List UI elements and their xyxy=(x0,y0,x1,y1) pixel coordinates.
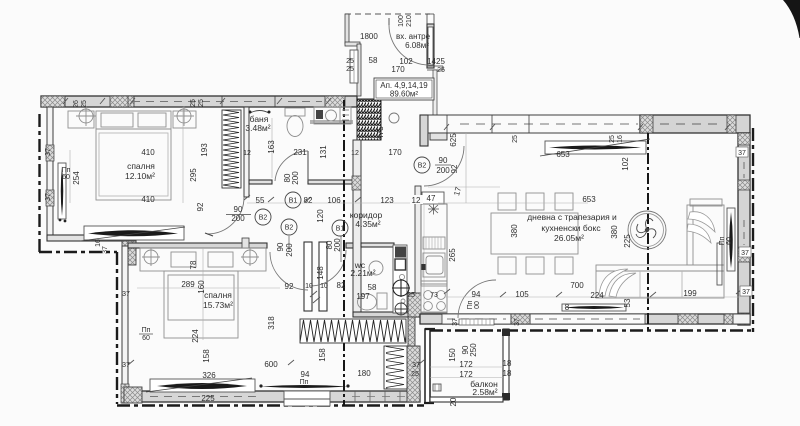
wall hatch block top-left corner xyxy=(41,96,65,107)
boundary bold dash right xyxy=(752,128,754,332)
bathroom sink xyxy=(314,107,351,124)
living bottom hatch blocks xyxy=(511,314,530,324)
svg-text:12.10м²: 12.10м² xyxy=(125,171,155,181)
corridor west wall xyxy=(353,140,361,317)
dimension tick marks xyxy=(63,98,742,365)
dining table xyxy=(491,213,578,254)
svg-text:225: 225 xyxy=(623,234,632,248)
dim line bathroom xyxy=(271,118,273,178)
dim line living horizontal y187 xyxy=(428,186,500,188)
wardrobe row bedroom2 xyxy=(140,248,266,271)
entrance top dashed line xyxy=(345,13,430,15)
bedroom2 top wall xyxy=(128,243,267,248)
kitchen counter xyxy=(421,204,447,313)
balcony bottom wall xyxy=(430,397,503,402)
niche wall post right xyxy=(319,242,327,311)
svg-text:193: 193 xyxy=(200,143,209,157)
svg-text:16: 16 xyxy=(95,239,102,247)
entrance left wall upper xyxy=(345,14,349,44)
sofa horizontal xyxy=(596,265,724,298)
bathroom sink niche wall xyxy=(310,121,353,123)
svg-text:158: 158 xyxy=(202,349,211,363)
wc toilet xyxy=(377,293,387,309)
wardrobe zigzag horizontal block xyxy=(300,319,406,343)
balcony right wall xyxy=(503,329,509,400)
svg-text:225: 225 xyxy=(201,394,215,403)
svg-text:6.08м²: 6.08м² xyxy=(405,41,429,50)
svg-text:90: 90 xyxy=(276,242,285,251)
svg-text:123: 123 xyxy=(380,196,394,205)
light symbol bedroom1 left xyxy=(79,109,93,123)
entrance door arc xyxy=(389,25,429,65)
bathroom towel rail xyxy=(250,111,269,114)
dim line bedroom2 xyxy=(137,248,280,340)
svg-text:Пп: Пп xyxy=(467,300,474,309)
svg-text:37: 37 xyxy=(122,362,130,369)
svg-text:37: 37 xyxy=(45,193,52,201)
kitchen cabinet 47 xyxy=(422,192,444,204)
svg-text:В1: В1 xyxy=(336,226,345,233)
dim line living y294 xyxy=(445,296,740,298)
svg-text:25: 25 xyxy=(81,100,88,108)
bedroom2 bottom window dash xyxy=(150,396,258,398)
ceiling fan xyxy=(628,211,666,249)
bedroom2 left wall hatch low xyxy=(121,384,129,403)
svg-text:37: 37 xyxy=(742,289,750,296)
svg-text:131: 131 xyxy=(319,145,328,159)
shaft dense hatch right of bath xyxy=(357,99,381,140)
radiator shelf bedroom1 bottom xyxy=(84,226,184,240)
svg-text:25: 25 xyxy=(190,99,197,107)
niche door arc B1 xyxy=(310,250,346,286)
wall bedroom1/bath vertical xyxy=(244,107,249,197)
svg-text:172: 172 xyxy=(459,370,473,379)
svg-text:00: 00 xyxy=(474,301,481,309)
wall column right of bedroom2 xyxy=(407,346,420,402)
corridor light circle xyxy=(389,113,399,123)
svg-text:200: 200 xyxy=(285,243,294,257)
svg-text:180: 180 xyxy=(357,369,371,378)
svg-text:37: 37 xyxy=(741,250,749,257)
light symbol bedroom1 right xyxy=(177,109,191,123)
kitchen counter divider xyxy=(421,281,447,284)
svg-text:26.05м²: 26.05м² xyxy=(554,233,584,243)
svg-text:58: 58 xyxy=(368,283,377,292)
svg-text:55: 55 xyxy=(256,196,265,205)
wall pier notch at bedroom1 door xyxy=(242,238,249,248)
svg-text:Пп: Пп xyxy=(62,167,71,174)
bathroom toilet xyxy=(285,108,305,116)
B1 circle xyxy=(285,192,301,208)
nightstand right xyxy=(173,111,196,128)
corridor west wall hatch xyxy=(352,176,361,190)
svg-text:92: 92 xyxy=(450,164,459,173)
svg-text:73: 73 xyxy=(430,292,438,299)
window center dash bedroom1 top xyxy=(132,101,322,103)
svg-text:90: 90 xyxy=(234,205,243,214)
svg-text:25: 25 xyxy=(512,135,519,143)
entrance left wall step xyxy=(345,42,360,46)
wall hatch block top x102 xyxy=(110,96,134,107)
bedroom1 door arc xyxy=(207,197,244,234)
svg-text:37: 37 xyxy=(738,150,746,157)
svg-text:37: 37 xyxy=(45,148,52,156)
svg-text:92: 92 xyxy=(285,282,294,291)
svg-text:4.35м²: 4.35м² xyxy=(355,219,380,229)
svg-text:25: 25 xyxy=(346,58,354,65)
svg-text:172: 172 xyxy=(459,360,473,369)
wardrobe zigzag vertical block xyxy=(384,346,407,389)
living bottom corner block xyxy=(733,314,750,324)
balcony door sill xyxy=(459,319,494,325)
svg-text:380: 380 xyxy=(510,224,519,238)
light symbols bedroom2 xyxy=(144,250,158,264)
svg-text:200: 200 xyxy=(231,214,245,223)
svg-text:37: 37 xyxy=(122,291,130,298)
svg-text:78: 78 xyxy=(189,260,198,269)
dim line living y201 xyxy=(438,133,588,203)
svg-text:10: 10 xyxy=(305,283,313,290)
kitchen fridge column xyxy=(393,245,407,313)
svg-text:37: 37 xyxy=(412,362,420,369)
boundary bold dash step xyxy=(39,252,424,406)
balcony door arc xyxy=(458,280,496,318)
sofa chaise cushion left xyxy=(599,269,628,296)
svg-text:265: 265 xyxy=(448,248,457,262)
living top window center dash xyxy=(460,123,638,125)
svg-text:60: 60 xyxy=(62,174,70,181)
svg-text:кухненски бокс: кухненски бокс xyxy=(541,223,601,233)
svg-text:60: 60 xyxy=(726,237,733,245)
svg-text:25: 25 xyxy=(346,66,354,73)
svg-text:18: 18 xyxy=(503,359,512,368)
svg-text:700: 700 xyxy=(570,281,584,290)
svg-text:дневна с трапезария и: дневна с трапезария и xyxy=(527,212,617,222)
dining chairs bottom xyxy=(498,257,516,274)
svg-text:231: 231 xyxy=(293,148,307,157)
svg-text:94: 94 xyxy=(301,370,310,379)
svg-text:спалня: спалня xyxy=(127,161,155,171)
svg-text:289: 289 xyxy=(181,280,195,289)
bedroom1 left wall xyxy=(47,107,53,241)
sofa vertical part xyxy=(687,205,724,265)
door leader lines B1 B2 xyxy=(289,236,341,262)
balcony left wall thick xyxy=(425,329,430,403)
svg-text:Пп: Пп xyxy=(719,236,726,245)
bathroom bottom wall left xyxy=(249,180,272,184)
corner hatch block bedroom2 top-left xyxy=(122,241,136,265)
svg-text:Пп: Пп xyxy=(300,379,309,386)
kitchen stove xyxy=(421,286,447,312)
svg-text:653: 653 xyxy=(582,195,596,204)
living left wall top piece xyxy=(420,115,428,146)
wall kitchen/balcony column xyxy=(408,293,421,317)
svg-text:25: 25 xyxy=(407,292,415,299)
svg-text:100: 100 xyxy=(398,15,405,27)
kitchen asterisk xyxy=(428,204,439,215)
kitchen sink square xyxy=(423,253,445,277)
page curl top-right xyxy=(783,0,800,38)
svg-text:47: 47 xyxy=(427,194,436,203)
svg-text:25: 25 xyxy=(437,67,445,74)
bedroom2 bottom hatch corner xyxy=(124,387,142,403)
left wall hatch tick2 xyxy=(46,190,54,206)
radiator shelf bedroom2 bottom xyxy=(150,379,255,392)
svg-text:12: 12 xyxy=(351,150,359,157)
svg-text:1425: 1425 xyxy=(427,57,445,66)
wall hatch block top x325 xyxy=(325,96,345,107)
radiator lens bedroom1 xyxy=(88,230,178,236)
svg-text:295: 295 xyxy=(189,168,198,182)
svg-text:26: 26 xyxy=(73,100,80,108)
svg-text:254: 254 xyxy=(72,171,81,185)
dimension construction lines xyxy=(63,98,742,378)
wall below entrance right xyxy=(433,70,437,115)
svg-text:250: 250 xyxy=(469,343,478,357)
wardrobe zigzag strip bedroom1 right xyxy=(222,110,241,188)
svg-text:37: 37 xyxy=(102,246,109,254)
living right radiator lens xyxy=(729,212,733,268)
svg-text:82: 82 xyxy=(304,196,313,205)
entrance left wall lower xyxy=(357,44,361,96)
living top band gray part xyxy=(640,115,750,133)
svg-text:В2: В2 xyxy=(285,225,294,232)
svg-text:Пп: Пп xyxy=(142,327,151,334)
entrance right wall bracket xyxy=(427,66,443,70)
svg-text:148: 148 xyxy=(316,266,325,280)
section line A xyxy=(343,100,345,406)
corridor right wall xyxy=(415,186,421,317)
niche slash ticks xyxy=(310,291,320,303)
bedroom2 bottom band xyxy=(128,391,420,402)
svg-text:170: 170 xyxy=(388,148,402,157)
svg-text:92: 92 xyxy=(196,202,205,211)
svg-text:90: 90 xyxy=(439,156,448,165)
svg-text:102: 102 xyxy=(621,157,630,171)
svg-text:60: 60 xyxy=(142,335,150,342)
svg-text:12: 12 xyxy=(412,196,421,205)
svg-text:2.21м²: 2.21м² xyxy=(350,268,375,278)
wc top wall xyxy=(361,243,394,247)
svg-text:224: 224 xyxy=(191,329,200,343)
svg-text:16: 16 xyxy=(617,135,624,143)
niche wall post left xyxy=(304,242,312,311)
svg-text:158: 158 xyxy=(318,348,327,362)
B2 circle bedroom2 door xyxy=(281,219,297,235)
wc bottom wall xyxy=(353,312,420,317)
living right wall hatches xyxy=(738,133,750,145)
svg-text:2.58м²: 2.58м² xyxy=(472,387,497,397)
svg-text:210: 210 xyxy=(406,15,413,27)
svg-text:199: 199 xyxy=(683,289,697,298)
svg-text:В2: В2 xyxy=(259,215,268,222)
svg-text:В1: В1 xyxy=(289,198,298,205)
svg-text:20: 20 xyxy=(449,397,458,406)
bedroom1 bottom wall xyxy=(47,235,136,241)
threshold strip bedroom2 exit xyxy=(261,385,348,388)
entrance right top tick xyxy=(427,14,434,24)
svg-text:спалня: спалня xyxy=(204,290,232,300)
svg-text:600: 600 xyxy=(264,360,278,369)
svg-text:94: 94 xyxy=(472,290,481,299)
entrance closet on left wall xyxy=(350,50,358,83)
svg-text:37: 37 xyxy=(452,318,459,326)
svg-text:200: 200 xyxy=(436,166,450,175)
sofa chaise cushion top xyxy=(688,212,715,232)
living right wall xyxy=(738,133,750,325)
svg-text:1800: 1800 xyxy=(360,32,378,41)
svg-text:25: 25 xyxy=(411,371,419,378)
balcony floor symbol xyxy=(433,384,441,391)
left vertical radiator xyxy=(58,163,66,219)
entrance right wall xyxy=(427,24,434,68)
sofa-side radiator xyxy=(564,306,624,309)
svg-text:625: 625 xyxy=(449,133,458,147)
svg-text:106: 106 xyxy=(327,196,341,205)
kitchen dishwasher xyxy=(423,237,445,249)
living bottom band xyxy=(420,314,750,324)
living top band hatch blocks xyxy=(640,115,653,133)
svg-text:200: 200 xyxy=(291,171,300,185)
svg-text:653: 653 xyxy=(556,150,570,159)
bottom band cell ticks xyxy=(355,391,400,402)
bedroom2 left wall xyxy=(122,246,128,403)
svg-text:вх. антре: вх. антре xyxy=(396,32,431,41)
living top band ticks xyxy=(447,115,529,133)
living top radiator shelf xyxy=(545,141,646,154)
apartment label box xyxy=(374,78,434,100)
entrance door leaf on right wall xyxy=(428,27,433,65)
svg-text:105: 105 xyxy=(515,290,529,299)
svg-text:25: 25 xyxy=(609,135,616,143)
bedroom2 door arc B2 xyxy=(270,252,308,290)
svg-text:18: 18 xyxy=(503,369,512,378)
svg-text:53: 53 xyxy=(623,298,632,307)
sill rect bedroom2 exit xyxy=(284,391,330,406)
dim lines balcony xyxy=(430,367,503,378)
living top-left wall step xyxy=(430,133,447,140)
svg-text:150: 150 xyxy=(448,348,457,362)
svg-text:25: 25 xyxy=(198,99,205,107)
dim chain line y200 xyxy=(247,202,420,204)
svg-text:475: 475 xyxy=(376,126,385,140)
boundary bold dash left xyxy=(38,114,40,252)
nightstand left xyxy=(68,111,94,128)
living bottom window white parts xyxy=(442,314,511,324)
svg-text:10: 10 xyxy=(320,283,328,290)
wall top band bedroom1+bath xyxy=(41,96,357,107)
svg-text:В2: В2 xyxy=(418,163,427,170)
svg-text:82: 82 xyxy=(337,281,346,290)
svg-text:12: 12 xyxy=(243,150,251,157)
bed1 bedroom1 xyxy=(96,111,171,200)
svg-text:15.73м²: 15.73м² xyxy=(203,300,233,310)
B2 circle bedroom1 xyxy=(255,209,271,225)
bathroom door leaf + arc xyxy=(307,151,309,181)
svg-text:318: 318 xyxy=(267,316,276,330)
svg-text:120: 120 xyxy=(316,209,325,223)
bathroom bottom wall right xyxy=(308,180,353,184)
svg-text:410: 410 xyxy=(141,148,155,157)
section line B xyxy=(647,133,649,330)
wc basin xyxy=(369,261,383,275)
svg-text:8: 8 xyxy=(565,303,570,312)
svg-text:58: 58 xyxy=(369,56,378,65)
svg-text:224: 224 xyxy=(590,291,604,300)
wall ticks top band xyxy=(65,96,275,107)
living right thin rect frame xyxy=(727,208,735,271)
svg-text:163: 163 xyxy=(267,140,276,154)
bed2 bedroom2 xyxy=(164,271,238,338)
svg-text:410: 410 xyxy=(141,195,155,204)
svg-text:89.60м²: 89.60м² xyxy=(390,90,419,99)
boundary bold dash bottom-right xyxy=(430,329,753,331)
svg-text:200: 200 xyxy=(333,238,342,252)
svg-text:197: 197 xyxy=(356,292,370,301)
svg-text:37: 37 xyxy=(514,318,521,326)
dining chairs top xyxy=(498,193,516,210)
svg-text:170: 170 xyxy=(391,65,405,74)
living top band white window part xyxy=(428,115,640,133)
left wall hatch tick1 xyxy=(46,145,54,161)
dim verticals bedroom1 xyxy=(70,107,183,203)
corridor-living door arc B2 xyxy=(424,146,464,186)
svg-text:326: 326 xyxy=(202,371,216,380)
svg-text:3.48м²: 3.48м² xyxy=(245,123,270,133)
svg-text:380: 380 xyxy=(610,225,619,239)
